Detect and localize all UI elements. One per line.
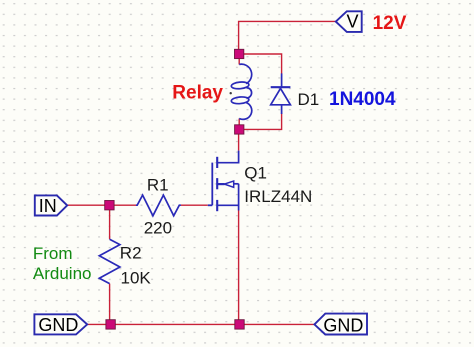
- wire Q1 source to ground rail: [238, 211, 240, 325]
- resistor R1: [136, 195, 181, 216]
- wire ground rail: [87, 323, 314, 325]
- svg-text:1N4004: 1N4004: [329, 89, 396, 110]
- svg-text:12V: 12V: [373, 13, 407, 34]
- port tag IN: [35, 195, 67, 216]
- port tag V: [336, 11, 362, 32]
- svg-text:Relay: Relay: [172, 83, 223, 104]
- resistor R2: [99, 239, 120, 283]
- svg-text:Q1: Q1: [244, 164, 267, 183]
- wire relay top lead: [238, 54, 240, 65]
- wire from node at relay top to diode top: [239, 54, 281, 74]
- svg-text:IN: IN: [39, 196, 57, 216]
- svg-text:Arduino: Arduino: [33, 264, 92, 283]
- svg-text:GND: GND: [38, 315, 78, 335]
- junction node ground/source: [235, 320, 244, 329]
- svg-text:From: From: [33, 244, 73, 263]
- svg-text:V: V: [347, 12, 359, 32]
- wire top from V tag to relay branch: [239, 21, 336, 54]
- diode D1: [271, 73, 291, 114]
- wire R2 bottom to ground rail: [109, 284, 111, 325]
- wire relay bottom lead: [238, 119, 240, 130]
- svg-text:R2: R2: [120, 244, 142, 263]
- wire R1 to Q1 gate: [181, 204, 208, 206]
- wire relay node to Q1 drain: [238, 129, 240, 150]
- junction node at relay bottom: [235, 125, 244, 134]
- port tag GND left: [34, 314, 87, 335]
- svg-text:GND: GND: [323, 315, 363, 335]
- junction node ground/R2: [106, 320, 115, 329]
- svg-text:D1: D1: [298, 90, 320, 109]
- port tag GND right: [314, 314, 367, 336]
- junction node IN/R2: [105, 201, 114, 210]
- wire from diode bottom to relay bottom node: [243, 114, 282, 130]
- svg-text:220: 220: [144, 219, 172, 238]
- relay coil L1: [231, 64, 252, 119]
- wire IN to R1: [67, 204, 137, 206]
- svg-text:10K: 10K: [121, 269, 152, 288]
- svg-text:IRLZ44N: IRLZ44N: [244, 187, 312, 206]
- junction node at relay top: [235, 49, 244, 58]
- transistor Q1: [208, 151, 239, 212]
- relay origin dot: [230, 92, 232, 94]
- svg-text:R1: R1: [147, 175, 169, 194]
- wire IN node to R2 top: [109, 205, 111, 239]
